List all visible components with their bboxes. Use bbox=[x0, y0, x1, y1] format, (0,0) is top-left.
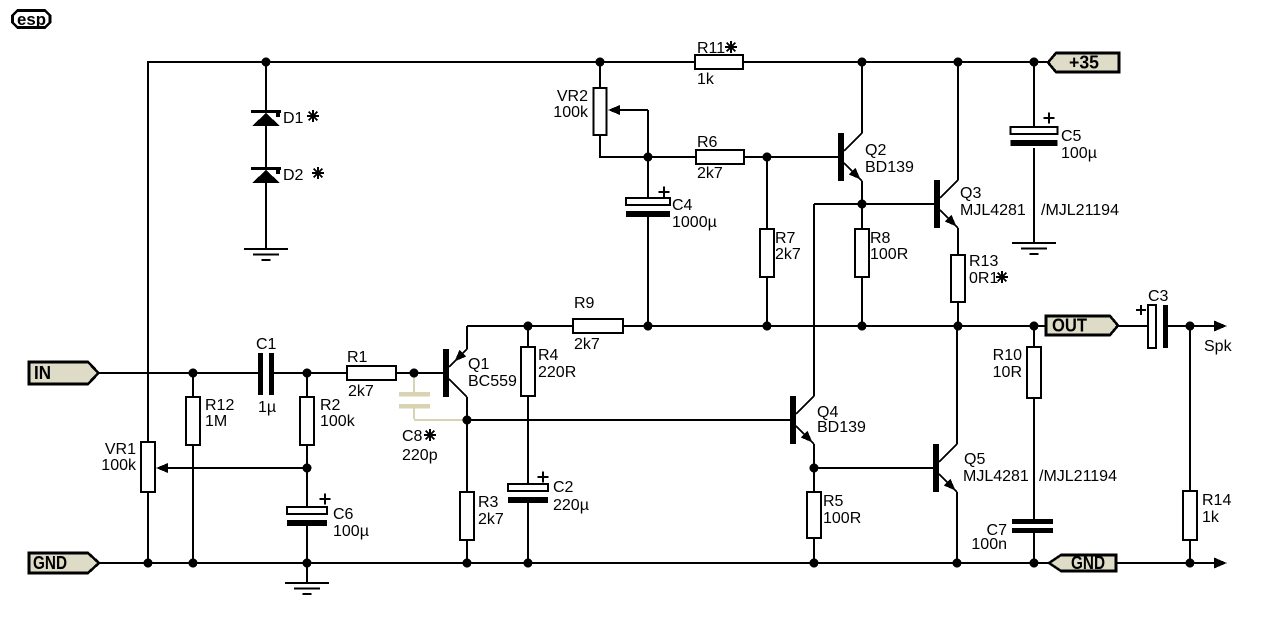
wire Q2 collector to rail bbox=[861, 62, 863, 133]
svg-text:MJL4281: MJL4281 bbox=[960, 202, 1026, 219]
resistor R8 bbox=[855, 229, 869, 277]
flag GND right bbox=[1049, 555, 1116, 571]
wire R4 to C2 bbox=[527, 396, 529, 484]
resistor R7 bbox=[760, 229, 774, 277]
wire C1 to R1 bbox=[274, 372, 347, 374]
svg-text:100k: 100k bbox=[553, 104, 589, 121]
svg-text:R9: R9 bbox=[574, 295, 595, 312]
diode D2 bbox=[251, 167, 281, 170]
wire R3 bottom lead bbox=[466, 540, 468, 564]
wire Q4 emitter down bbox=[813, 444, 815, 468]
svg-text:R11: R11 bbox=[697, 40, 725, 57]
capacitor C5 bbox=[1011, 127, 1058, 134]
flag IN bbox=[29, 362, 99, 384]
wire Q3 collector to rail bbox=[957, 62, 959, 180]
transistor Q4 bbox=[790, 396, 796, 444]
wire R6 to Q2 base bbox=[744, 156, 838, 158]
svg-text:2k7: 2k7 bbox=[775, 246, 801, 263]
svg-text:/MJL21194: /MJL21194 bbox=[1039, 468, 1117, 485]
svg-text:1k: 1k bbox=[697, 71, 715, 88]
wire VR2 wiper bbox=[614, 109, 648, 111]
wire C6 bottom lead bbox=[306, 526, 308, 564]
svg-text:2k7: 2k7 bbox=[348, 383, 374, 400]
wire down to Q4 collector bbox=[813, 204, 815, 396]
svg-text:100n: 100n bbox=[971, 536, 1007, 553]
wire top rail right of R11 bbox=[743, 61, 1049, 63]
svg-text:esp: esp bbox=[17, 10, 46, 29]
resistor R9 bbox=[573, 319, 623, 333]
svg-text:C6: C6 bbox=[333, 506, 354, 523]
wire R13 bottom lead bbox=[957, 302, 959, 326]
svg-text:BC559: BC559 bbox=[468, 373, 517, 390]
svg-text:R1: R1 bbox=[347, 349, 368, 366]
wire Q1 emitter to R9 bbox=[467, 325, 573, 327]
wire IN to C1 bbox=[98, 372, 258, 374]
transistor Q1 bbox=[443, 349, 449, 397]
wire VR2 wiper down to node bbox=[647, 110, 649, 157]
svg-text:2k7: 2k7 bbox=[478, 511, 504, 528]
svg-text:C4: C4 bbox=[672, 197, 693, 214]
svg-text:C2: C2 bbox=[553, 479, 574, 496]
flag OUT bbox=[1046, 316, 1118, 335]
junction dots bbox=[262, 58, 271, 67]
resistor R3 bbox=[460, 492, 474, 540]
ground below C6 bbox=[285, 582, 329, 584]
svg-text:MJL4281: MJL4281 bbox=[963, 468, 1029, 485]
svg-text:R14: R14 bbox=[1202, 492, 1231, 509]
wire R2 to VR1 wiper node bbox=[306, 445, 308, 507]
wire top rail left of R11 bbox=[148, 61, 695, 63]
svg-text:Spk: Spk bbox=[1204, 338, 1233, 355]
wire C7 bottom lead bbox=[1033, 532, 1035, 564]
svg-text:D2: D2 bbox=[283, 167, 304, 184]
wire R10 top lead bbox=[1033, 326, 1035, 347]
ground below D2 bbox=[244, 248, 288, 250]
svg-text:VR2: VR2 bbox=[557, 88, 588, 105]
svg-text:R12: R12 bbox=[205, 397, 234, 414]
svg-text:IN: IN bbox=[34, 363, 51, 383]
potentiometer VR1 bbox=[141, 442, 155, 492]
svg-text:100µ: 100µ bbox=[1061, 145, 1097, 162]
svg-text:R13: R13 bbox=[969, 253, 998, 270]
wire R2 top lead bbox=[306, 373, 308, 397]
svg-text:0R1: 0R1 bbox=[969, 270, 998, 287]
wire D1 anode from rail bbox=[265, 62, 267, 111]
resistor R5 bbox=[807, 492, 821, 538]
wire VR1 bottom lead bbox=[147, 492, 149, 564]
capacitor C1 bbox=[258, 353, 263, 395]
arrow Spk bbox=[1214, 321, 1227, 332]
resistor R6 bbox=[696, 150, 744, 164]
svg-text:BD139: BD139 bbox=[865, 159, 914, 176]
svg-text:C1: C1 bbox=[256, 336, 277, 353]
svg-text:1k: 1k bbox=[1202, 509, 1220, 526]
wire C3 right to Spk bbox=[1167, 325, 1224, 327]
svg-text:2k7: 2k7 bbox=[697, 165, 723, 182]
wire Q5 collector up to OUT bbox=[956, 326, 958, 444]
wire Q4 emitter node to Q5 base bbox=[814, 467, 933, 469]
svg-text:Q2: Q2 bbox=[865, 142, 886, 159]
wire C5 top lead bbox=[1033, 62, 1035, 127]
wire C4 bottom lead bbox=[647, 217, 649, 326]
svg-text:10R: 10R bbox=[993, 364, 1022, 381]
transistor Q5 bbox=[933, 444, 939, 492]
wire Q5 emitter to rail bbox=[956, 492, 958, 564]
wire R3 top lead bbox=[466, 420, 468, 492]
svg-text:100µ: 100µ bbox=[333, 523, 369, 540]
wire R4 top lead bbox=[527, 326, 529, 347]
wire R9 to OUT node bbox=[623, 325, 1149, 327]
svg-text:220R: 220R bbox=[538, 364, 576, 381]
svg-text:Q5: Q5 bbox=[964, 451, 985, 468]
wire R5 top lead bbox=[813, 468, 815, 492]
svg-text:R6: R6 bbox=[697, 134, 718, 151]
wire R7 top lead bbox=[766, 157, 768, 229]
wire feedback node to Q4 base bbox=[466, 419, 790, 421]
svg-text:100k: 100k bbox=[101, 457, 137, 474]
wire Q1 emitter vertical bbox=[466, 326, 468, 349]
svg-text:/MJL21194: /MJL21194 bbox=[1041, 202, 1119, 219]
svg-text:1µ: 1µ bbox=[258, 399, 276, 416]
flag GND left bbox=[29, 553, 99, 573]
capacitor C4 bbox=[626, 198, 670, 205]
wire Q2 emitter down bbox=[861, 181, 863, 204]
wire Q2 emitter node to Q3 base bbox=[814, 203, 934, 205]
svg-text:R10: R10 bbox=[993, 347, 1022, 364]
svg-text:Q1: Q1 bbox=[468, 356, 489, 373]
wire VR2 top lead bbox=[599, 62, 601, 88]
wire Q3 emitter to R13 bbox=[957, 228, 959, 255]
wire C5 bottom lead bbox=[1033, 148, 1035, 243]
svg-text:100k: 100k bbox=[320, 413, 356, 430]
resistor R12 bbox=[186, 397, 200, 445]
svg-text:R8: R8 bbox=[870, 230, 891, 247]
capacitor C3 bbox=[1148, 305, 1156, 348]
svg-text:1M: 1M bbox=[205, 413, 227, 430]
flag +35 bbox=[1048, 53, 1119, 72]
transistor Q2 bbox=[838, 133, 844, 181]
wire R14 bottom lead bbox=[1189, 540, 1191, 564]
potentiometer VR2 bbox=[594, 88, 607, 135]
wire R10 to C7 bbox=[1033, 398, 1035, 520]
wire C6 ground stem bbox=[306, 563, 308, 583]
wire R12 top lead bbox=[192, 373, 194, 397]
svg-text:C3: C3 bbox=[1148, 288, 1169, 305]
resistor R2 bbox=[300, 397, 314, 445]
wire R1 to Q1 base bbox=[396, 372, 443, 374]
wire R8 top lead bbox=[861, 204, 863, 229]
svg-text:1000µ: 1000µ bbox=[672, 214, 717, 231]
svg-text:R2: R2 bbox=[320, 397, 341, 414]
wire C2 bottom lead bbox=[527, 503, 529, 564]
svg-text:R4: R4 bbox=[538, 347, 559, 364]
svg-text:VR1: VR1 bbox=[105, 441, 136, 458]
arrow GND rail right bbox=[1214, 558, 1227, 569]
wire VR2 bottom to R6 bbox=[600, 156, 696, 158]
diode D1 bbox=[251, 110, 281, 113]
capacitor C8 bbox=[414, 374, 464, 420]
svg-text:R3: R3 bbox=[478, 494, 499, 511]
resistor R11 bbox=[695, 55, 743, 69]
wire R12 bottom lead bbox=[192, 445, 194, 564]
wire R7 bottom lead bbox=[766, 277, 768, 326]
transistor Q3 bbox=[934, 180, 940, 228]
wire R14 top lead bbox=[1189, 326, 1191, 491]
svg-text:D1: D1 bbox=[283, 110, 304, 127]
svg-text:C5: C5 bbox=[1061, 128, 1082, 145]
resistor R13 bbox=[951, 255, 965, 302]
wire C4 top lead bbox=[647, 157, 649, 198]
svg-text:BD139: BD139 bbox=[817, 419, 866, 436]
svg-text:R5: R5 bbox=[823, 493, 844, 510]
wire bottom GND rail bbox=[99, 562, 1224, 564]
svg-text:220p: 220p bbox=[402, 447, 438, 464]
svg-text:100R: 100R bbox=[823, 510, 861, 527]
svg-text:OUT: OUT bbox=[1052, 316, 1087, 336]
capacitor C7 bbox=[1012, 519, 1053, 524]
wire VR2 bottom lead bbox=[599, 135, 601, 158]
resistor R1 bbox=[347, 366, 396, 380]
ground below C5 bbox=[1012, 242, 1056, 244]
svg-text:GND: GND bbox=[1071, 553, 1105, 573]
resistor R4 bbox=[521, 347, 535, 396]
svg-text:C8: C8 bbox=[402, 428, 423, 445]
svg-text:+35: +35 bbox=[1069, 53, 1099, 73]
svg-text:2k7: 2k7 bbox=[574, 336, 600, 353]
ESP logo bbox=[13, 10, 51, 29]
resistor R10 bbox=[1027, 347, 1041, 398]
resistor R14 bbox=[1183, 491, 1197, 540]
svg-text:220µ: 220µ bbox=[553, 497, 589, 514]
capacitor C2 bbox=[508, 484, 548, 491]
wire Q1 collector vertical bbox=[466, 397, 468, 421]
wire R8 bottom lead bbox=[861, 277, 863, 326]
svg-text:Q3: Q3 bbox=[960, 185, 981, 202]
wire VR1 wiper bbox=[165, 467, 307, 469]
svg-text:100R: 100R bbox=[870, 246, 908, 263]
svg-text:R7: R7 bbox=[775, 230, 796, 247]
wire left vertical to VR1 bbox=[147, 61, 149, 442]
wire R5 bottom lead bbox=[813, 538, 815, 564]
wire D1-D2 bbox=[265, 126, 267, 168]
capacitor C6 bbox=[287, 507, 327, 514]
svg-text:GND: GND bbox=[33, 553, 67, 573]
wire D2 to ground bbox=[265, 183, 267, 249]
